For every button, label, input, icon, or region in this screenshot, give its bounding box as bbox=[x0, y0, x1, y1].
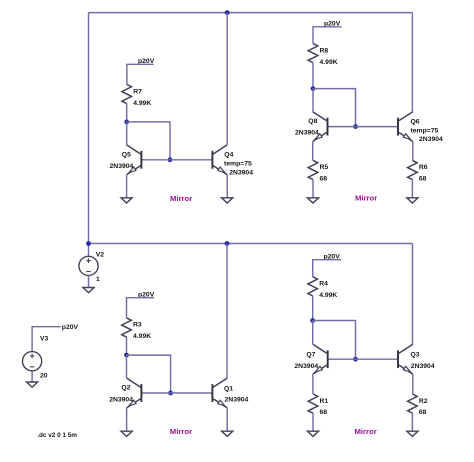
wire node down to Q8 collector bbox=[312, 89, 314, 112]
node Q5 collector/base feedback bbox=[124, 120, 129, 125]
wire p20V stub to R4 top bbox=[313, 260, 341, 277]
svg-text:2N3904: 2N3904 bbox=[294, 363, 318, 370]
svg-text:2N3904: 2N3904 bbox=[419, 136, 443, 143]
resistor R3 bbox=[122, 318, 132, 337]
transistor Q2 bbox=[127, 378, 142, 408]
svg-text:Q1: Q1 bbox=[224, 386, 233, 393]
voltage source V3 bbox=[22, 352, 41, 371]
wire Q1 collector vertical bbox=[226, 244, 228, 379]
svg-text:R5: R5 bbox=[320, 164, 329, 171]
svg-text:Q3: Q3 bbox=[411, 352, 420, 359]
wire R1 bottom to ground bbox=[312, 413, 314, 431]
wire Q7 emitter to R1 bbox=[312, 374, 314, 394]
transistor Q5 bbox=[127, 145, 142, 175]
wire mid rail V2+ to Q1/Q3 collectors bbox=[89, 243, 413, 245]
wire R7 bottom to node bbox=[126, 104, 128, 122]
svg-text:2N3904: 2N3904 bbox=[110, 163, 134, 170]
svg-text:Q5: Q5 bbox=[122, 151, 131, 158]
transistor Q8 bbox=[313, 112, 328, 142]
svg-text:4.99K: 4.99K bbox=[320, 59, 338, 66]
wire V3 plus to p20V flag bbox=[32, 327, 61, 352]
wire feedback loop to base bbox=[313, 321, 356, 360]
wire base Q2 to Q1 bbox=[141, 392, 212, 394]
resistor R8 bbox=[308, 44, 318, 63]
transistor Q4 bbox=[212, 145, 227, 175]
ground below V3 bbox=[27, 382, 38, 387]
wire node down to Q5 collector bbox=[126, 122, 128, 145]
ground below R2 bbox=[407, 431, 418, 436]
ground below V2 bbox=[83, 288, 94, 293]
svg-text:Q7: Q7 bbox=[306, 352, 315, 359]
wire Q3 emitter to R2 bbox=[412, 374, 414, 394]
node junction Q1 collector / mid rail bbox=[225, 241, 230, 246]
node Q7 collector/base feedback bbox=[310, 318, 315, 323]
node base junction top-right bbox=[353, 124, 358, 129]
svg-text:temp=75: temp=75 bbox=[224, 161, 252, 168]
svg-text:1: 1 bbox=[96, 276, 100, 283]
node junction Q4 collector / top rail bbox=[225, 10, 230, 15]
svg-text:68: 68 bbox=[320, 176, 328, 183]
resistor R1 bbox=[308, 394, 318, 413]
svg-text:2N3904: 2N3904 bbox=[229, 169, 253, 176]
svg-text:4.99K: 4.99K bbox=[133, 333, 151, 340]
resistor R4 bbox=[308, 277, 318, 296]
wire Q4 emitter to ground bbox=[226, 175, 228, 198]
svg-text:68: 68 bbox=[419, 409, 427, 416]
node Q2 collector/base feedback bbox=[124, 353, 129, 358]
wire p20V stub to R7 top bbox=[127, 64, 154, 84]
resistor R7 bbox=[122, 84, 132, 103]
wire feedback loop to base bbox=[127, 355, 171, 393]
ground below Q1 bbox=[222, 431, 233, 436]
svg-text:68: 68 bbox=[419, 176, 427, 183]
wire base Q5 to Q4 bbox=[141, 159, 212, 161]
wire base Q8 to Q6 bbox=[328, 126, 399, 128]
transistor Q3 bbox=[398, 344, 413, 374]
svg-text:R7: R7 bbox=[133, 88, 142, 95]
svg-text:R2: R2 bbox=[419, 398, 428, 405]
node base junction bottom-right bbox=[353, 357, 358, 362]
wire base Q7 to Q3 bbox=[328, 358, 398, 360]
svg-text:.dc v2 0 1 5m: .dc v2 0 1 5m bbox=[37, 432, 77, 439]
svg-text:R3: R3 bbox=[133, 322, 142, 329]
wire node down to Q7 collector bbox=[312, 321, 314, 345]
svg-text:temp=75: temp=75 bbox=[411, 127, 439, 134]
svg-text:R1: R1 bbox=[320, 398, 329, 405]
svg-text:4.99K: 4.99K bbox=[133, 100, 151, 107]
svg-text:2N3904: 2N3904 bbox=[109, 396, 133, 403]
ground below Q2 bbox=[121, 431, 132, 436]
node Q8 collector/base feedback bbox=[311, 86, 316, 91]
wire R6 bottom to ground bbox=[411, 180, 413, 198]
svg-text:Q8: Q8 bbox=[308, 118, 317, 125]
wire top rail V2+ to Q4/Q6 collectors bbox=[89, 12, 413, 14]
wire left rail down to V2 bbox=[88, 13, 90, 257]
voltage source V2 bbox=[79, 256, 98, 275]
resistor R5 bbox=[308, 160, 318, 179]
wire R4 bottom to node bbox=[312, 296, 314, 321]
wire V2 minus to ground bbox=[88, 276, 90, 288]
svg-text:20: 20 bbox=[40, 373, 48, 380]
svg-text:V2: V2 bbox=[96, 252, 105, 259]
wire R8 bottom to node bbox=[312, 63, 314, 89]
transistor Q1 bbox=[212, 378, 227, 408]
ground below R1 bbox=[307, 431, 318, 436]
wire Q6 emitter to R6 bbox=[412, 142, 414, 161]
node base junction bottom-left bbox=[168, 391, 173, 396]
svg-text:R4: R4 bbox=[319, 280, 328, 287]
wire Q8 emitter to R5 bbox=[312, 142, 314, 161]
svg-text:Mirror: Mirror bbox=[355, 193, 377, 202]
wire Q6 collector vertical bbox=[411, 13, 413, 112]
ground below R6 bbox=[407, 198, 418, 203]
wire p20V stub to R3 top bbox=[127, 298, 155, 318]
node junction left rail / mid rail bbox=[86, 241, 91, 246]
svg-text:Mirror: Mirror bbox=[355, 427, 377, 436]
svg-text:R6: R6 bbox=[419, 164, 428, 171]
wire Q3 collector vertical bbox=[412, 244, 414, 345]
svg-text:R8: R8 bbox=[320, 48, 329, 55]
wire p20V stub to R8 top bbox=[313, 27, 342, 44]
svg-text:p20V: p20V bbox=[62, 324, 79, 331]
svg-text:4.99K: 4.99K bbox=[319, 292, 337, 299]
wire R2 bottom to ground bbox=[411, 413, 413, 431]
svg-text:68: 68 bbox=[320, 409, 328, 416]
wire feedback loop to base bbox=[127, 122, 170, 160]
node base junction top-left bbox=[168, 157, 173, 162]
transistor Q6 bbox=[398, 112, 413, 142]
wire R3 bottom to node bbox=[126, 337, 128, 355]
wire node down to Q2 collector bbox=[126, 355, 128, 378]
svg-text:Q4: Q4 bbox=[224, 152, 233, 159]
wire Q2 emitter to ground bbox=[126, 408, 128, 431]
svg-text:Mirror: Mirror bbox=[170, 194, 192, 203]
resistor R6 bbox=[408, 160, 418, 179]
resistor R2 bbox=[408, 394, 418, 413]
svg-text:2N3904: 2N3904 bbox=[411, 363, 435, 370]
svg-text:Mirror: Mirror bbox=[170, 427, 192, 436]
svg-text:2N3904: 2N3904 bbox=[225, 396, 249, 403]
transistor Q7 bbox=[313, 344, 328, 374]
wire V3 minus to ground bbox=[31, 371, 33, 382]
wire feedback loop to base bbox=[313, 89, 356, 127]
svg-text:Q2: Q2 bbox=[121, 385, 130, 392]
wire Q1 emitter to ground bbox=[226, 408, 228, 431]
svg-text:V3: V3 bbox=[40, 336, 49, 343]
wire Q5 emitter to ground bbox=[126, 175, 128, 198]
ground below Q4 bbox=[222, 198, 233, 203]
ground below R5 bbox=[307, 198, 318, 203]
svg-text:Q6: Q6 bbox=[411, 119, 420, 126]
wire Q4 collector vertical bbox=[226, 13, 228, 145]
ground below Q5 bbox=[121, 198, 132, 203]
wire R5 bottom to ground bbox=[312, 180, 314, 198]
svg-text:2N3904: 2N3904 bbox=[295, 129, 319, 136]
